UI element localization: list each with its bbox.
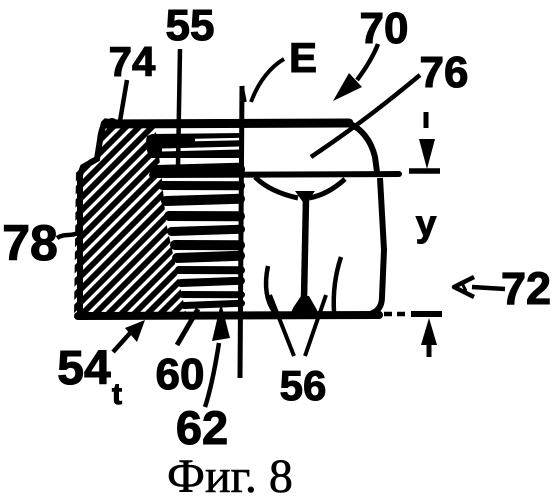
arrow 54 head	[125, 320, 145, 342]
corner blob at 74 leader tip	[106, 118, 118, 130]
left flat bottom arc	[266, 266, 275, 313]
arrow 70 head	[333, 73, 362, 101]
svg-text:y: y	[416, 203, 437, 244]
outline: hex top edge line	[152, 174, 399, 175]
chamfer curve right under top edge	[309, 179, 345, 198]
leader 56 right	[305, 295, 326, 356]
svg-text:76: 76	[420, 48, 469, 97]
outline: hex right edge	[370, 178, 384, 314]
dim y top arrowhead	[419, 139, 435, 169]
dim y bottom crossbar	[411, 311, 442, 317]
dim y top tick and stem	[424, 112, 429, 128]
svg-text:72: 72	[501, 263, 551, 314]
svg-text:78: 78	[2, 215, 58, 271]
arrow 72 stem	[472, 287, 505, 289]
leader E	[251, 59, 284, 102]
svg-text:55: 55	[166, 1, 215, 50]
svg-text:74: 74	[109, 38, 156, 85]
hex corner vertical edge	[304, 198, 306, 299]
outline: bottom edge line	[78, 315, 379, 316]
outline: dome top 70	[106, 123, 349, 124]
thread bands of tapped bore 55/60	[146, 133, 244, 158]
leader E tick	[242, 86, 245, 102]
right flat bottom arc	[334, 257, 341, 312]
svg-text:60: 60	[156, 350, 205, 399]
dashed extension bottom right	[384, 312, 405, 317]
dim y bottom arrowhead	[421, 318, 437, 345]
leader 55	[178, 49, 180, 167]
svg-text:56: 56	[280, 362, 327, 409]
outline: dome right shoulder 76	[348, 123, 377, 172]
svg-text:54: 54	[57, 342, 111, 395]
svg-text:62: 62	[176, 401, 228, 454]
leader 56 left	[270, 295, 294, 356]
svg-text:70: 70	[360, 4, 409, 53]
arrow 72 head	[454, 277, 474, 297]
leader 76	[311, 75, 420, 157]
chamfer curve left under top edge	[255, 177, 298, 198]
small dark wedge at chamfer V meeting	[295, 191, 315, 205]
svg-text:Фиг. 8: Фиг. 8	[167, 450, 293, 500]
hatching of section 78	[0, 105, 408, 330]
hex corner base foot	[291, 296, 318, 313]
arrow 70 stem	[357, 44, 378, 80]
arrow 54 stem	[113, 332, 131, 352]
dim y bottom stem	[427, 340, 432, 357]
white streaks inside upper dark thread mass	[195, 139, 242, 140]
svg-text:E: E	[289, 34, 317, 81]
arrow 62 stem	[205, 343, 219, 407]
leader 78	[57, 232, 80, 238]
axis / section line E	[240, 86, 242, 378]
leader 60	[177, 309, 198, 345]
leader 74	[120, 80, 127, 121]
arrow 62 head	[212, 303, 230, 341]
dim y top crossbar	[409, 168, 440, 174]
svg-text:t: t	[112, 378, 122, 411]
outline: left profile of section	[80, 122, 108, 312]
